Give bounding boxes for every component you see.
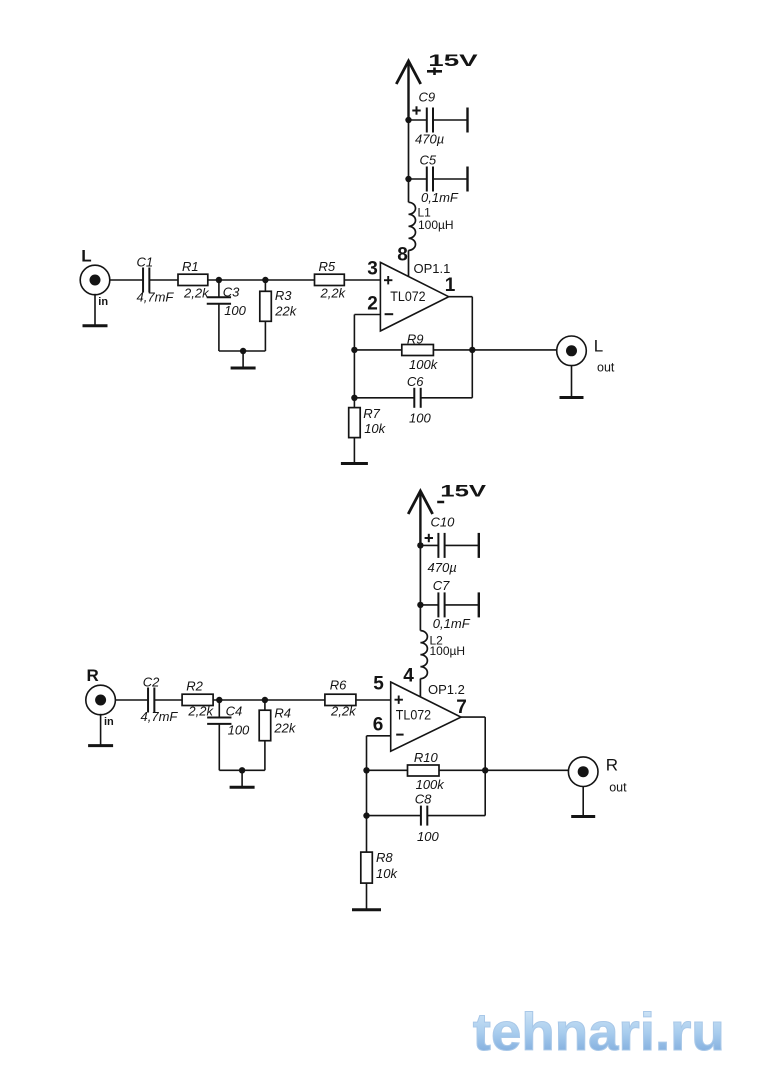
svg-text:1: 1 xyxy=(445,275,456,296)
svg-text:R8: R8 xyxy=(376,850,393,865)
svg-text:4: 4 xyxy=(403,666,414,687)
svg-text:470µ: 470µ xyxy=(415,131,444,146)
svg-text:tehnari.ru: tehnari.ru xyxy=(473,1003,725,1062)
svg-text:C3: C3 xyxy=(223,284,240,299)
svg-text:2,2k: 2,2k xyxy=(330,704,357,719)
svg-text:15V: 15V xyxy=(440,481,487,500)
svg-text:100µH: 100µH xyxy=(430,644,466,658)
svg-text:10k: 10k xyxy=(376,866,398,881)
svg-text:2: 2 xyxy=(367,294,378,315)
svg-text:C6: C6 xyxy=(407,374,424,389)
svg-text:in: in xyxy=(104,716,114,728)
svg-text:100: 100 xyxy=(224,303,246,318)
svg-text:R: R xyxy=(606,755,618,774)
svg-text:4,7mF: 4,7mF xyxy=(137,290,175,305)
svg-text:R: R xyxy=(87,666,99,685)
svg-text:100k: 100k xyxy=(416,777,446,792)
svg-text:L: L xyxy=(81,247,91,266)
svg-text:4,7mF: 4,7mF xyxy=(141,709,179,724)
svg-text:R6: R6 xyxy=(330,677,347,692)
svg-text:22k: 22k xyxy=(274,304,297,319)
svg-text:15V: 15V xyxy=(428,51,478,70)
svg-text:22k: 22k xyxy=(273,721,296,736)
svg-text:C4: C4 xyxy=(226,704,243,719)
svg-text:3: 3 xyxy=(367,258,378,279)
svg-text:100: 100 xyxy=(409,410,431,425)
svg-text:2,2k: 2,2k xyxy=(183,285,210,300)
svg-text:6: 6 xyxy=(373,715,384,736)
svg-text:C8: C8 xyxy=(415,792,432,807)
svg-text:out: out xyxy=(597,360,615,374)
svg-text:100: 100 xyxy=(417,829,439,844)
svg-text:in: in xyxy=(98,296,108,308)
svg-text:100k: 100k xyxy=(409,357,439,372)
svg-text:5: 5 xyxy=(373,674,384,695)
svg-text:0,1mF: 0,1mF xyxy=(433,616,471,631)
svg-text:C5: C5 xyxy=(420,153,437,168)
svg-text:R7: R7 xyxy=(363,406,380,421)
svg-text:R9: R9 xyxy=(407,331,424,346)
svg-text:10k: 10k xyxy=(364,421,386,436)
svg-text:TL072: TL072 xyxy=(390,289,425,304)
svg-text:R1: R1 xyxy=(182,259,199,274)
svg-text:R3: R3 xyxy=(275,288,292,303)
svg-text:2,2k: 2,2k xyxy=(187,704,214,719)
svg-text:100µH: 100µH xyxy=(418,218,454,232)
svg-text:2,2k: 2,2k xyxy=(320,285,347,300)
svg-text:C9: C9 xyxy=(419,89,436,104)
svg-text:0,1mF: 0,1mF xyxy=(421,190,459,205)
svg-text:TL072: TL072 xyxy=(396,708,431,723)
svg-text:7: 7 xyxy=(456,697,467,718)
svg-text:R2: R2 xyxy=(186,679,203,694)
svg-text:470µ: 470µ xyxy=(428,560,457,575)
svg-text:R4: R4 xyxy=(274,706,291,721)
svg-text:C10: C10 xyxy=(431,514,456,529)
svg-text:OP1.1: OP1.1 xyxy=(414,261,451,276)
svg-text:C1: C1 xyxy=(137,255,154,270)
svg-text:OP1.2: OP1.2 xyxy=(428,682,465,697)
svg-text:L: L xyxy=(594,337,603,356)
svg-text:out: out xyxy=(609,780,627,794)
svg-text:8: 8 xyxy=(397,244,408,265)
svg-text:C7: C7 xyxy=(433,578,450,593)
svg-text:R5: R5 xyxy=(319,259,336,274)
svg-text:R10: R10 xyxy=(414,750,439,765)
svg-text:C2: C2 xyxy=(143,674,160,689)
svg-text:100: 100 xyxy=(228,723,250,738)
